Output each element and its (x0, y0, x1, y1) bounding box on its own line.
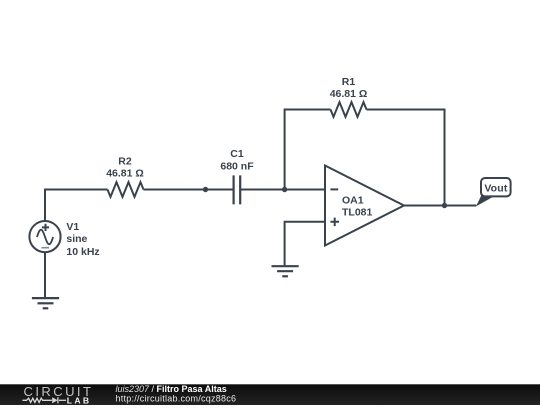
svg-text:R1: R1 (342, 76, 356, 88)
wire R2 to C1 (144, 189, 234, 191)
wire non-inverting input to ground (285, 222, 325, 265)
svg-text:OA1: OA1 (342, 194, 364, 206)
svg-text:680 nF: 680 nF (220, 160, 254, 172)
Vout flag pointer (476, 195, 494, 207)
node junction dot (C1/feedback) (282, 187, 287, 192)
svg-text:R2: R2 (118, 155, 132, 167)
svg-text:C1: C1 (230, 148, 244, 160)
footer bar (0, 384, 540, 405)
svg-text:Vout: Vout (484, 183, 508, 195)
resistor R1 (331, 102, 367, 117)
ground (V1) (32, 298, 59, 308)
node junction dot (R2/C1) (203, 187, 208, 192)
svg-text:http://circuitlab.com/cqz88c6: http://circuitlab.com/cqz88c6 (116, 394, 237, 404)
CircuitLab logo diode triangle (52, 397, 57, 403)
svg-text:V1: V1 (66, 221, 79, 233)
op-amp plus pin symbol (330, 218, 339, 227)
svg-text:46.81 Ω: 46.81 Ω (106, 167, 144, 179)
resistor R2 (108, 182, 144, 197)
V1 sine symbol (37, 230, 53, 245)
node junction dot (output) (442, 203, 447, 208)
wire C1 to op-amp inverting input (240, 189, 325, 191)
svg-text:10 kHz: 10 kHz (66, 246, 99, 258)
wire feedback: node to R1 to output (285, 110, 331, 190)
wire R1 to output node (367, 110, 445, 206)
V1 plus sign (42, 224, 49, 231)
op-amp U1 triangle (325, 166, 404, 246)
op-amp minus pin symbol (330, 188, 338, 190)
capacitor C1 (234, 175, 241, 204)
voltage source V1 circle (29, 221, 60, 252)
wire V1 bottom to ground (44, 252, 46, 297)
svg-text:sine: sine (66, 233, 87, 245)
ground (op-amp + input) (272, 266, 299, 276)
wire V1 top to R2 (45, 190, 108, 222)
svg-text:LAB: LAB (67, 395, 92, 405)
CircuitLab logo waveform (23, 397, 67, 403)
V1 minus sign (41, 247, 49, 249)
svg-text:46.81 Ω: 46.81 Ω (330, 88, 368, 100)
svg-text:luis2307 / Filtro Pasa Altas: luis2307 / Filtro Pasa Altas (116, 384, 227, 394)
Vout flag box (481, 178, 511, 196)
wire op-amp output to Vout (404, 205, 476, 207)
svg-text:TL081: TL081 (342, 207, 373, 219)
